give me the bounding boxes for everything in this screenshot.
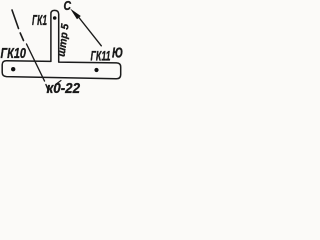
svg-text:ГК10: ГК10 [1, 46, 27, 62]
contact segment bar with finger (outline) [2, 10, 121, 78]
right rivet dot [94, 68, 98, 72]
arrow to С [70, 9, 81, 20]
wire dashed leader top-left [12, 10, 24, 41]
left rivet dot [11, 67, 15, 71]
wire dashed crossing diagonal [27, 44, 49, 91]
svg-text:ГК11: ГК11 [91, 48, 111, 64]
contact dot on finger [53, 16, 57, 20]
svg-text:Ю: Ю [112, 46, 123, 62]
slash on 0 of к0-22 [56, 81, 62, 85]
svg-text:С: С [64, 0, 72, 13]
svg-text:ГК1: ГК1 [32, 12, 47, 29]
svg-text:к0-22: к0-22 [47, 81, 81, 97]
